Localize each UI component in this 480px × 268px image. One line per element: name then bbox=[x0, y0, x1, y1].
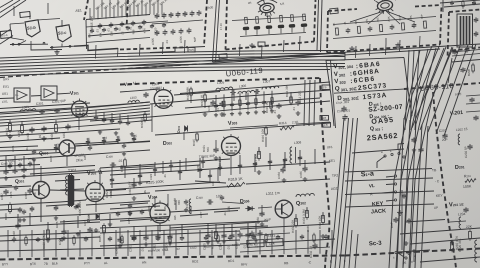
capacitor bbox=[324, 235, 328, 237]
resistor bbox=[401, 23, 404, 30]
wire bbox=[31, 95, 41, 98]
wire bbox=[304, 160, 306, 168]
wire bbox=[5, 156, 7, 172]
wire bbox=[17, 214, 19, 226]
wire bbox=[0, 202, 60, 205]
ground bbox=[145, 242, 147, 244]
capacitor bbox=[268, 160, 272, 162]
wire bbox=[389, 46, 432, 268]
ground bbox=[223, 239, 225, 241]
bus wire bbox=[0, 56, 345, 64]
capacitor C345 bbox=[87, 228, 92, 230]
wire bbox=[0, 209, 20, 210]
ground bbox=[263, 110, 265, 112]
capacitor bbox=[190, 12, 195, 15]
wire bbox=[256, 30, 258, 35]
tube V302b bbox=[86, 183, 105, 202]
wire bbox=[230, 155, 232, 175]
wire bbox=[0, 0, 20, 13]
wire bbox=[245, 92, 247, 100]
wire bbox=[86, 21, 168, 27]
wire bbox=[444, 4, 480, 7]
wire bbox=[87, 138, 89, 146]
ground bbox=[129, 212, 131, 214]
wire bbox=[47, 3, 49, 14]
capacitor bbox=[12, 169, 17, 171]
capacitor bbox=[183, 12, 188, 15]
resistor bbox=[223, 101, 226, 107]
amplifier symbol FL-2 bbox=[41, 86, 57, 100]
wire bbox=[100, 159, 230, 168]
wire bbox=[398, 250, 430, 252]
capacitor bbox=[184, 200, 188, 202]
capacitor bbox=[132, 237, 136, 239]
wire bbox=[213, 53, 346, 63]
capacitor bbox=[109, 23, 113, 26]
wire bbox=[211, 230, 213, 255]
capacitor bbox=[450, 1, 454, 3]
wire bbox=[37, 19, 60, 21]
capacitor bbox=[452, 50, 457, 53]
wire bbox=[117, 48, 120, 57]
unit box border bbox=[226, 0, 228, 50]
capacitor bbox=[246, 102, 250, 104]
resistor pill bbox=[278, 25, 285, 29]
wire bbox=[127, 230, 129, 256]
capacitor bbox=[473, 116, 478, 118]
capacitor bbox=[229, 234, 234, 236]
capacitor bbox=[237, 233, 242, 235]
wire bbox=[420, 257, 480, 262]
wire bbox=[91, 230, 93, 256]
wire bbox=[355, 234, 358, 268]
wire bbox=[0, 97, 14, 100]
wire bbox=[85, 20, 88, 49]
resistor bbox=[379, 24, 382, 31]
wire bbox=[139, 164, 141, 184]
wire bbox=[448, 58, 452, 83]
capacitor bbox=[249, 232, 254, 234]
capacitor bbox=[162, 14, 167, 17]
resistor bbox=[291, 15, 294, 22]
wire bbox=[385, 44, 388, 55]
wire bbox=[99, 168, 101, 190]
capacitor bbox=[138, 25, 142, 27]
unit box U060-119 border top bbox=[120, 78, 320, 85]
wire bbox=[428, 46, 460, 132]
wire bbox=[66, 156, 68, 166]
bus wire bbox=[0, 70, 330, 76]
ground bbox=[169, 241, 171, 243]
wire bbox=[86, 38, 150, 43]
capacitor bbox=[116, 212, 120, 214]
capacitor bbox=[68, 180, 72, 182]
wire bbox=[255, 92, 257, 109]
wire bbox=[141, 0, 143, 15]
wire bbox=[222, 202, 244, 204]
ground bbox=[405, 241, 407, 243]
wire bbox=[117, 136, 119, 144]
ground bbox=[255, 110, 257, 112]
wire bus left2 bbox=[0, 102, 150, 114]
capacitor C318 bbox=[15, 224, 20, 226]
capacitor bbox=[390, 25, 395, 28]
capacitor C303 bbox=[29, 128, 34, 130]
wire bbox=[466, 111, 480, 112]
wire bbox=[139, 44, 142, 56]
wire bbox=[78, 117, 80, 130]
ground bbox=[185, 208, 187, 210]
capacitor bbox=[252, 236, 256, 238]
wire bbox=[95, 45, 98, 59]
wire bbox=[217, 169, 219, 181]
capacitor bbox=[474, 32, 479, 35]
wire bbox=[333, 31, 436, 39]
wire bbox=[283, 230, 285, 254]
wire bbox=[119, 114, 121, 120]
wire bbox=[331, 230, 333, 254]
wire bbox=[0, 214, 95, 218]
ground bbox=[77, 232, 79, 234]
capacitor bbox=[116, 138, 120, 140]
wire bbox=[283, 218, 285, 232]
ground bbox=[63, 236, 65, 238]
wire bbox=[175, 200, 177, 210]
wire bbox=[214, 211, 238, 213]
resistor bbox=[73, 237, 76, 243]
bus wire bbox=[0, 50, 345, 58]
bus wire bbox=[0, 60, 345, 67]
capacitor bbox=[143, 236, 148, 238]
wire bbox=[421, 126, 428, 268]
contact circles S1-c bbox=[51, 47, 53, 49]
wire bbox=[151, 230, 153, 256]
transistor Q302 bbox=[275, 200, 293, 218]
ground bbox=[278, 114, 280, 116]
capacitor bbox=[110, 178, 114, 180]
ground bbox=[9, 134, 11, 136]
capacitor bbox=[163, 30, 168, 33]
wire bbox=[155, 123, 330, 135]
wire bbox=[111, 167, 113, 188]
capacitor C316b bbox=[255, 89, 257, 94]
wire bbox=[405, 220, 445, 223]
table box bbox=[326, 58, 404, 127]
capacitor bbox=[36, 238, 40, 240]
ground bbox=[223, 112, 225, 114]
ground bbox=[95, 228, 97, 230]
wire bbox=[403, 47, 446, 268]
wire bbox=[61, 20, 63, 27]
resistor pill bbox=[289, 24, 296, 28]
switch S1-b bbox=[25, 20, 40, 37]
ground bbox=[397, 43, 399, 45]
capacitor bbox=[198, 168, 202, 170]
wire bbox=[452, 50, 480, 53]
wire bbox=[240, 233, 290, 236]
wire bbox=[185, 98, 320, 108]
capacitor bbox=[257, 232, 262, 234]
wire bbox=[271, 91, 273, 108]
unit box border bbox=[204, 0, 207, 46]
capacitor bbox=[298, 156, 302, 158]
wire bbox=[213, 0, 217, 62]
wire bbox=[180, 214, 208, 216]
tube V301 bbox=[72, 101, 88, 117]
wire bbox=[386, 11, 400, 24]
wire bbox=[29, 213, 31, 225]
wire bbox=[399, 40, 402, 52]
terminal UFB bbox=[320, 116, 329, 121]
resistor bbox=[256, 17, 259, 24]
wire bbox=[109, 0, 111, 17]
capacitor bbox=[176, 13, 181, 16]
capacitor bbox=[60, 238, 64, 240]
wire bbox=[239, 155, 241, 174]
ground bbox=[23, 174, 25, 176]
wire bbox=[410, 50, 414, 130]
ground bbox=[56, 50, 58, 52]
wire bbox=[223, 230, 225, 255]
switch Sc-3 contacts bbox=[395, 251, 397, 253]
wire bbox=[344, 118, 358, 268]
wire bbox=[10, 23, 24, 24]
wire bbox=[209, 170, 211, 182]
capacitor C204 bbox=[463, 208, 468, 210]
wire bbox=[258, 147, 260, 155]
wire bbox=[75, 142, 118, 145]
wire bbox=[0, 185, 12, 188]
ground bbox=[123, 152, 125, 154]
wire bbox=[150, 101, 330, 117]
wire bbox=[420, 47, 452, 130]
terminal box bbox=[219, 54, 227, 59]
wire bbox=[95, 165, 200, 172]
wire bbox=[231, 94, 233, 111]
capacitor C313 bbox=[231, 90, 233, 95]
unit box border bbox=[327, 11, 328, 53]
capacitor bbox=[8, 164, 12, 166]
wire bbox=[0, 172, 95, 178]
capacitor bbox=[140, 210, 144, 212]
capacitor C305b bbox=[65, 125, 70, 127]
wire bbox=[239, 93, 241, 110]
ground bbox=[131, 132, 133, 134]
capacitor bbox=[86, 140, 90, 142]
resistor bbox=[462, 1, 464, 6]
wire bbox=[304, 80, 305, 126]
wire bbox=[110, 182, 150, 185]
wire bbox=[100, 217, 170, 221]
ground bbox=[99, 130, 101, 132]
capacitor bbox=[131, 236, 136, 238]
capacitor bbox=[102, 28, 106, 30]
ground bbox=[23, 218, 25, 220]
wire bbox=[10, 43, 48, 45]
wire bbox=[340, 118, 354, 268]
wire bbox=[442, 0, 444, 12]
wire bbox=[40, 199, 42, 222]
wire bbox=[110, 162, 330, 175]
wire bbox=[50, 190, 86, 191]
capacitor bbox=[402, 194, 407, 196]
wire bbox=[240, 247, 330, 252]
wire bbox=[170, 208, 240, 212]
capacitor C307 bbox=[143, 93, 148, 95]
capacitor bbox=[84, 237, 88, 239]
wire bbox=[0, 245, 240, 251]
wire bbox=[9, 120, 11, 124]
resistor R323 bbox=[46, 230, 49, 238]
wire bbox=[12, 38, 25, 40]
capacitor bbox=[230, 103, 234, 105]
wire bbox=[0, 237, 100, 241]
capacitor bbox=[3, 170, 8, 172]
bus wire bbox=[0, 63, 345, 70]
capacitor bbox=[162, 23, 166, 25]
wire bbox=[124, 166, 126, 178]
capacitor bbox=[474, 18, 479, 21]
capacitor bbox=[153, 168, 157, 170]
unit box U060-118 border top bbox=[404, 83, 480, 89]
resistor bbox=[215, 231, 218, 238]
wire bbox=[19, 230, 21, 257]
wire bbox=[0, 186, 31, 188]
wire bbox=[86, 201, 150, 205]
wire bbox=[270, 100, 272, 105]
wire bbox=[55, 180, 80, 182]
wire bbox=[0, 150, 59, 152]
wire bbox=[14, 156, 16, 171]
wire bbox=[75, 141, 150, 146]
capacitor bbox=[128, 204, 132, 206]
wire bbox=[416, 48, 436, 124]
wire bbox=[100, 240, 240, 246]
wire bbox=[120, 44, 480, 66]
wire bbox=[215, 95, 217, 112]
wire bbox=[97, 8, 99, 20]
resistor bbox=[25, 238, 28, 244]
capacitor bbox=[167, 235, 172, 237]
wire bbox=[265, 137, 267, 147]
capacitor bbox=[22, 210, 26, 212]
wire bbox=[183, 132, 185, 140]
wire bbox=[109, 214, 111, 226]
contact row bbox=[394, 199, 396, 201]
wire bbox=[55, 144, 57, 152]
wire bbox=[401, 190, 403, 250]
wire bbox=[314, 149, 316, 164]
capacitor C319b bbox=[276, 104, 281, 106]
terminal LFB bbox=[322, 123, 331, 128]
wire bbox=[259, 230, 261, 254]
resistor R309 bbox=[8, 204, 11, 211]
resistor R311 bbox=[290, 97, 293, 103]
wire bbox=[86, 15, 150, 20]
terminal TP3 bbox=[322, 85, 330, 90]
wire bbox=[199, 158, 201, 178]
wire bbox=[466, 95, 480, 96]
wire bbox=[105, 7, 107, 19]
wire bbox=[307, 230, 309, 254]
tube V303 bbox=[222, 137, 241, 156]
contact circles S1-b bbox=[12, 43, 14, 45]
wire bbox=[261, 205, 263, 214]
capacitor bbox=[88, 146, 92, 148]
wire bbox=[280, 28, 282, 33]
wire bbox=[120, 166, 155, 168]
wire bbox=[33, 160, 35, 176]
resistor bbox=[303, 14, 306, 21]
wire bbox=[404, 50, 420, 120]
wire bbox=[121, 6, 123, 17]
wire bbox=[155, 186, 240, 191]
wire bbox=[400, 228, 480, 234]
contact 25V bbox=[408, 253, 410, 255]
wire bbox=[153, 4, 155, 15]
unit box border bbox=[120, 47, 188, 49]
wire bbox=[117, 0, 119, 16]
tube V304 bbox=[150, 203, 170, 223]
capacitor bbox=[469, 98, 474, 100]
capacitor bbox=[214, 104, 218, 106]
capacitor bbox=[262, 101, 266, 103]
wire bbox=[90, 117, 150, 121]
wire bbox=[230, 125, 278, 128]
unit box border bottom bbox=[0, 256, 345, 260]
wire bbox=[150, 90, 330, 104]
wire bbox=[111, 113, 113, 119]
wire bbox=[152, 20, 203, 24]
terminal box bbox=[20, 11, 30, 17]
wire bbox=[115, 230, 117, 256]
wire bbox=[103, 230, 105, 256]
wire bbox=[355, 46, 358, 58]
bus wire bbox=[0, 66, 345, 73]
wire bbox=[151, 104, 153, 120]
wire bbox=[0, 222, 100, 227]
wire bbox=[190, 206, 192, 214]
wire bbox=[67, 230, 69, 257]
wire bbox=[398, 144, 404, 151]
wire bbox=[0, 166, 95, 172]
resistor bbox=[271, 98, 274, 104]
ground bbox=[47, 238, 49, 240]
wire bbox=[101, 0, 103, 17]
wire bbox=[55, 230, 57, 257]
ground bbox=[413, 148, 415, 150]
wire bbox=[444, 44, 476, 136]
capacitor bbox=[120, 22, 124, 25]
wire bbox=[161, 4, 163, 15]
wire bbox=[120, 49, 440, 69]
tube V302a bbox=[154, 90, 173, 109]
transistor Q301 bbox=[33, 182, 50, 199]
capacitor bbox=[94, 116, 98, 118]
wire bbox=[290, 92, 292, 100]
capacitor bbox=[179, 29, 184, 32]
wire bbox=[255, 223, 257, 235]
ground bbox=[133, 196, 135, 198]
capacitor bbox=[412, 24, 417, 27]
wire bbox=[240, 239, 335, 244]
wire bbox=[125, 0, 127, 16]
wire bbox=[215, 224, 217, 236]
wire bbox=[175, 230, 177, 255]
wire bbox=[0, 36, 13, 45]
wire bbox=[254, 154, 256, 172]
wire bbox=[88, 31, 150, 37]
